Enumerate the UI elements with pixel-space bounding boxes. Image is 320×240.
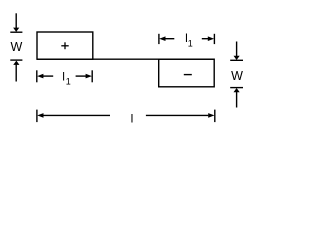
dimension l1 lower: tail right (76, 75, 86, 77)
dimension l1 top: tail left (165, 38, 174, 40)
arrowhead l bottom right (208, 113, 214, 118)
dimension W right: extension tail bottom (236, 92, 238, 108)
dimension l1 lower: tick left (36, 70, 38, 82)
dimension W left: extension tail top (15, 13, 17, 28)
label plus (61, 42, 68, 49)
dimension W left: extension tail bottom (15, 65, 17, 82)
dimension l1 lower: tail left (43, 75, 53, 77)
arrowhead W left down (13, 28, 19, 32)
dimension W right: extension tail top (236, 42, 238, 57)
rectangle plus-patch (37, 32, 93, 59)
arrowhead l1 lower left (37, 74, 43, 79)
dimension l1 top: tick right (213, 34, 215, 44)
svg-text:W: W (231, 69, 243, 83)
dimension l bottom: tick right (214, 110, 216, 123)
dimension W right: tick top (230, 59, 243, 61)
dimension l1 lower: tick right (91, 70, 93, 82)
label minus (184, 74, 192, 76)
dimension l bottom: tail right (146, 114, 208, 116)
dimension W right: tick bottom (230, 87, 243, 89)
svg-text:W: W (10, 40, 22, 54)
arrowhead W right up (234, 88, 240, 92)
wire center line (37, 58, 214, 60)
svg-text:l: l (131, 111, 134, 125)
svg-text:l: l (62, 70, 65, 84)
arrowhead l1 top right (208, 36, 214, 41)
rectangle minus-patch (159, 59, 215, 87)
dimension W left: tick top (10, 31, 22, 33)
arrowhead l1 top left (159, 36, 165, 41)
arrowhead l bottom left (37, 113, 43, 118)
dimension l1 top: tail right (202, 38, 208, 40)
arrowhead l1 lower right (86, 74, 92, 79)
dimension l1 top: tick left (158, 34, 160, 44)
dimension l bottom: tick left (36, 110, 38, 123)
arrowhead W right down (234, 56, 240, 60)
dimension l bottom: tail left (44, 114, 111, 116)
arrowhead W left up (13, 61, 19, 65)
dimension W left: tick bottom (10, 59, 22, 61)
svg-text:1: 1 (66, 77, 71, 87)
svg-text:1: 1 (188, 39, 193, 49)
